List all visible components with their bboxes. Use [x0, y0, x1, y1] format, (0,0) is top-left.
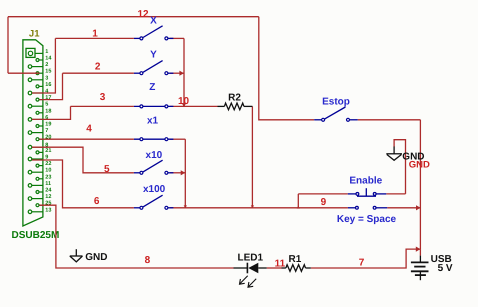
svg-text:1: 1 — [45, 49, 48, 55]
wire Enable row left segment — [298, 193, 348, 195]
svg-text:9: 9 — [321, 197, 327, 208]
J1 pin 20 — [36, 135, 51, 141]
svg-text:8: 8 — [145, 255, 151, 266]
wire net 3 vertical to pin 6 — [32, 106, 71, 119]
J1 pin 14 — [36, 56, 52, 62]
svg-text:12: 12 — [137, 9, 149, 20]
svg-text:DSUB25M: DSUB25M — [12, 230, 60, 241]
wire bus X-Y-Z vertical — [183, 38, 185, 106]
J1 pin 22 — [36, 161, 51, 167]
svg-text:14: 14 — [45, 56, 52, 62]
svg-text:3: 3 — [45, 75, 48, 81]
switch x100 — [134, 195, 174, 209]
junction Enable branch on net 9 row — [297, 206, 300, 209]
wire x10 right to bus2 — [170, 172, 185, 174]
svg-text:13: 13 — [45, 207, 51, 213]
battery V1 USB 5V — [411, 256, 429, 281]
svg-text:J1: J1 — [29, 28, 40, 39]
switch Y — [134, 61, 174, 75]
wire net 10 Z row to R2 — [170, 105, 217, 107]
wire net 11 LED to R1 — [267, 267, 282, 269]
J1 pin 6 — [28, 115, 48, 121]
svg-text:Key = Space: Key = Space — [337, 214, 397, 225]
wire R2 branch down to net 9 row — [251, 106, 253, 207]
svg-text:12: 12 — [45, 194, 51, 200]
wire net 8 from pin 25 to GND row — [39, 205, 233, 268]
wire net 9 row x100 to Key switch — [170, 207, 348, 209]
connector J1 body (DSUB25M) — [23, 40, 43, 226]
switch X — [134, 26, 174, 40]
svg-text:R2: R2 — [228, 93, 241, 104]
J1 pin 16 — [36, 82, 51, 88]
junction Y row bus — [179, 71, 184, 76]
J1 pin 4 — [28, 89, 49, 95]
svg-text:x1: x1 — [147, 116, 159, 127]
switch x1 (closed) — [134, 138, 174, 141]
junction bus2 end on row 9 — [184, 205, 187, 208]
wire net 9 Key right to battery vertical — [387, 207, 420, 209]
J1 pin 13 — [28, 207, 51, 213]
svg-text:5: 5 — [45, 102, 48, 108]
svg-text:21: 21 — [45, 148, 51, 154]
junction R2 branch on net 9 row — [251, 205, 254, 208]
svg-text:24: 24 — [45, 188, 52, 194]
wire right vertical Estop to battery junction — [419, 120, 421, 249]
wire Enable row right segment — [386, 193, 405, 195]
svg-text:15: 15 — [45, 69, 51, 75]
wire Enable branch down to net 9 row — [297, 194, 299, 208]
svg-text:5 V: 5 V — [438, 263, 453, 274]
wire net 7 R1 to battery — [311, 249, 421, 268]
junction x10 row bus2 — [181, 170, 186, 175]
J1 pin 3 — [28, 75, 48, 81]
wire net 6 from pin 9 — [32, 160, 134, 208]
svg-text:11: 11 — [45, 181, 51, 187]
J1 pin 19 — [36, 122, 51, 128]
svg-text:18: 18 — [45, 108, 51, 114]
switch x10 — [134, 160, 174, 174]
wire Estop right to right vertical — [358, 119, 421, 121]
wire net 3 Z row — [71, 105, 134, 107]
J1 pin 1 — [26, 48, 48, 57]
switch Estop — [314, 107, 358, 121]
wire net 2 vertical to pin 17 — [39, 73, 62, 99]
junction bus end on Z row — [182, 103, 186, 107]
svg-text:x100: x100 — [143, 184, 166, 195]
svg-text:Y: Y — [150, 49, 157, 60]
wire net 1 X row — [55, 37, 133, 39]
wire net 1 vertical — [32, 38, 56, 93]
J1 pin 11 — [28, 181, 51, 187]
junction net 9 at right vertical — [416, 205, 421, 210]
svg-text:R1: R1 — [289, 254, 302, 265]
J1 pin 24 — [36, 188, 52, 194]
resistor R2 — [218, 103, 253, 110]
J1 pin 9 — [28, 155, 48, 161]
J1 pin 15 — [36, 69, 51, 75]
wire net 2 Y row — [63, 72, 134, 74]
svg-text:Z: Z — [149, 82, 155, 93]
J1 pin 17 — [36, 95, 51, 101]
ground GND near Estop — [386, 147, 402, 161]
switch Key = Space — [348, 206, 387, 209]
svg-text:x10: x10 — [146, 150, 163, 161]
J1 pin 10 — [28, 168, 51, 174]
svg-text:Estop: Estop — [322, 97, 350, 108]
svg-text:1: 1 — [92, 28, 98, 39]
wire X right to bus — [170, 37, 184, 39]
J1 pin 23 — [36, 174, 51, 180]
svg-text:2: 2 — [95, 61, 101, 72]
svg-text:7: 7 — [45, 128, 48, 134]
junction battery node — [416, 247, 421, 252]
svg-text:16: 16 — [45, 82, 51, 88]
J1 pin 7 — [28, 128, 48, 134]
wire net 12 left vertical — [7, 17, 9, 73]
svg-text:GND: GND — [85, 252, 107, 263]
J1 pin 18 — [36, 108, 51, 114]
svg-text:23: 23 — [45, 174, 51, 180]
wire net 12 into pin 15 — [8, 72, 40, 74]
J1 pin 25 — [36, 201, 51, 207]
wire x1 right to bus2 — [170, 138, 185, 140]
J1 pin 21 — [36, 148, 51, 154]
resistor R1 — [282, 265, 311, 272]
J1 pin 12 — [28, 194, 51, 200]
wire top vertical to Estop row — [259, 17, 314, 120]
svg-text:GND: GND — [409, 159, 430, 170]
svg-text:10: 10 — [45, 168, 51, 174]
switch Enable (pushbutton) — [348, 188, 387, 196]
svg-text:2: 2 — [45, 62, 48, 68]
switch Z (closed) — [134, 105, 174, 108]
LED1 diode — [234, 263, 267, 288]
J1 pin 5 — [28, 102, 48, 108]
svg-text:4: 4 — [86, 124, 92, 135]
wire battery positive stub — [419, 249, 421, 256]
wire net 12 top horizontal — [8, 16, 259, 18]
wire net 4 x1 row from pin 20 — [39, 138, 133, 140]
J1 pin 2 — [28, 62, 48, 68]
J1 pin 8 — [28, 143, 48, 149]
svg-text:LED1: LED1 — [238, 253, 264, 264]
svg-text:5: 5 — [104, 164, 110, 175]
wire GND staple near Estop — [394, 140, 405, 194]
svg-text:3: 3 — [100, 92, 106, 103]
wire net 5 from pin 8 — [32, 147, 134, 173]
wire bus2 x1-x10-x100 vertical — [184, 139, 186, 208]
svg-text:22: 22 — [45, 161, 51, 167]
svg-text:19: 19 — [45, 122, 51, 128]
svg-text:Enable: Enable — [349, 175, 382, 186]
svg-text:7: 7 — [359, 258, 365, 269]
wire Y right to bus — [170, 72, 184, 74]
svg-text:10: 10 — [178, 96, 190, 107]
svg-text:X: X — [150, 15, 157, 26]
ground GND bottom left — [70, 249, 83, 262]
LED1 emission arrows — [240, 276, 257, 287]
svg-text:6: 6 — [94, 196, 100, 207]
